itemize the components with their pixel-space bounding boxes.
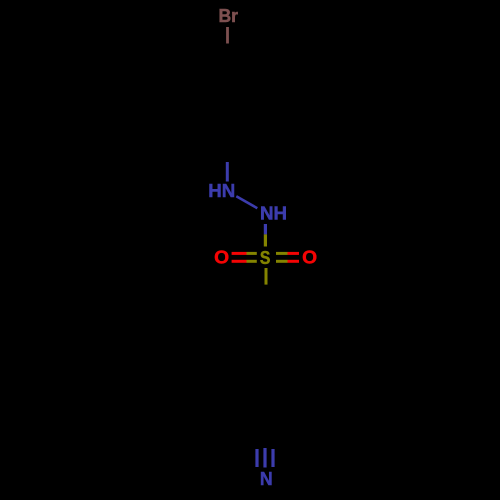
svg-text:HN: HN [208,181,235,201]
svg-text:S: S [260,248,271,268]
svg-text:Br: Br [219,6,239,26]
svg-text:O: O [214,248,229,268]
svg-text:N: N [260,469,273,489]
svg-text:O: O [302,248,317,268]
svg-text:NH: NH [260,204,287,224]
